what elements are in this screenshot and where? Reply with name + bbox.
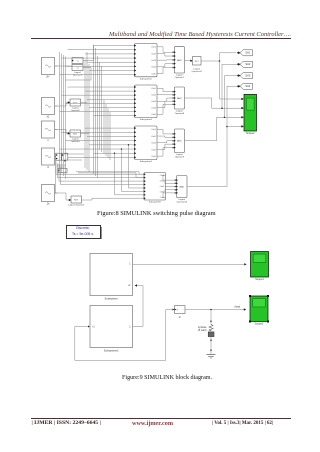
series RLC load 1phase 5watt	[198, 324, 214, 342]
footer rule	[31, 417, 292, 420]
wire Sin3 to NOT3	[55, 130, 71, 135]
subsystem mux S3	[134, 85, 157, 121]
output tag SA1	[237, 50, 252, 56]
wires mux3 to AND9	[157, 129, 174, 156]
footer volume info	[212, 421, 273, 426]
wires mux2 to AND8	[157, 88, 174, 114]
wire AND8 to scope port2	[185, 98, 242, 108]
logical operator NOT13	[190, 57, 202, 73]
wire feedback loop to i2	[166, 309, 175, 361]
wire op1 out up	[83, 45, 94, 61]
scope block Scope3	[249, 295, 269, 325]
mid bus vertical wires	[85, 45, 110, 178]
svg-text:2h: 2h	[47, 203, 50, 205]
caption figure 8	[97, 210, 216, 217]
logical operator NOT2	[70, 99, 81, 112]
source block Sin2	[42, 98, 58, 119]
footer website	[132, 420, 173, 427]
subsystem block Subsystem1	[90, 306, 133, 353]
svg-text:SA2: SA2	[245, 62, 250, 66]
fan-in wires to mux block 3 with branches to block 4	[60, 128, 144, 195]
fan-in wires to mux block 2	[60, 87, 135, 115]
svg-text:Operator9: Operator9	[175, 156, 185, 159]
wire SA3 collector	[224, 76, 238, 119]
subsystem mux S5	[144, 173, 166, 204]
source block Sin4	[42, 148, 58, 169]
svg-text:AND: AND	[177, 59, 182, 62]
svg-text:h2: h2	[47, 116, 50, 118]
ground symbol	[207, 352, 216, 359]
running head title	[109, 31, 291, 38]
svg-text:SA4: SA4	[245, 84, 250, 88]
wire NOT2 out	[81, 102, 88, 104]
powergui block shadow	[68, 227, 102, 239]
wire Sin2 to NOT2	[55, 101, 71, 106]
svg-text:AND: AND	[177, 140, 182, 143]
logical operator AND8	[172, 87, 185, 115]
output tag SA4	[237, 83, 252, 89]
fan-in wires to mux block 1	[60, 46, 135, 75]
powergui block Discrete	[66, 225, 101, 238]
wire SA4 branch to scope port4	[226, 126, 242, 128]
left bus vertical wires	[60, 52, 66, 179]
wire op1 lower out	[65, 68, 91, 81]
source block Sin5	[42, 185, 58, 206]
wire AND9 to scope port3	[185, 117, 242, 140]
wire Sin4 to cluster	[55, 156, 57, 158]
output tag SA3	[237, 73, 252, 79]
wire NOT3 out	[81, 133, 90, 135]
wires mux4 to AND10	[163, 175, 176, 197]
long wires from cluster to mux block 4	[56, 162, 144, 185]
svg-text:SA3: SA3	[245, 74, 250, 78]
scope block Scope2	[241, 94, 257, 134]
wire cluster out	[64, 153, 84, 155]
wire SA2 collector	[221, 64, 237, 109]
wire Sin1 to relational op	[55, 65, 73, 67]
relational operator block	[72, 58, 83, 77]
scope block Scope1	[251, 252, 269, 281]
wire Subsystem1 out to Subsystem in	[133, 284, 144, 326]
svg-text:Logical Operator6: Logical Operator6	[68, 203, 85, 206]
wire NOT13 to SA1	[201, 53, 236, 61]
logical operator AND10	[175, 176, 188, 204]
output tag SA2	[237, 61, 252, 67]
wire NOT13 branch to scope port1	[219, 60, 242, 99]
svg-text:AND: AND	[177, 97, 182, 100]
caption figure 9	[122, 375, 212, 381]
wire Sin5 to NOT6	[55, 193, 72, 201]
wire AND10 to collector	[187, 86, 238, 186]
wire cluster out2	[64, 159, 82, 161]
svg-text:i2: i2	[179, 316, 182, 319]
bottom feedback wires	[56, 160, 144, 194]
wire NOT6 out	[82, 198, 144, 200]
subsystem mux S2	[134, 44, 157, 81]
svg-text:i load: i load	[234, 304, 241, 308]
subsystem block Subsystem	[90, 254, 133, 301]
header rule	[31, 37, 292, 40]
svg-text:Subsystem2: Subsystem2	[140, 77, 153, 80]
logical operator AND7	[172, 47, 185, 79]
svg-text:Scope3: Scope3	[255, 322, 264, 325]
svg-text:Subsystem5: Subsystem5	[149, 201, 162, 204]
svg-text:2h*: 2h*	[46, 76, 50, 78]
comparator cluster	[56, 153, 68, 173]
svg-text:SA1: SA1	[245, 51, 250, 55]
footer journal name	[32, 420, 101, 426]
wire Subsystem out1 to Scope1	[133, 263, 247, 265]
svg-text:Subsystem3: Subsystem3	[140, 118, 153, 121]
source block Sin1	[42, 58, 58, 79]
svg-text:Subsystem1: Subsystem1	[104, 348, 119, 352]
svg-text:it: it	[47, 139, 49, 142]
svg-text:Operator3: Operator3	[71, 140, 81, 143]
svg-text:i1: i1	[47, 167, 50, 169]
svg-text:AND: AND	[179, 185, 184, 188]
logical operator NOT3	[70, 130, 81, 143]
svg-text:Scope2: Scope2	[246, 132, 255, 135]
wire branch to load	[210, 309, 212, 331]
wire AND7 to NOT13	[185, 59, 193, 61]
svg-text:Operator10: Operator10	[176, 201, 187, 204]
label i load	[234, 304, 241, 308]
wires mux1 to AND7	[157, 47, 174, 74]
svg-text:Subsystem4: Subsystem4	[140, 160, 153, 163]
svg-text:Operator8: Operator8	[175, 112, 185, 115]
svg-text:Operator13: Operator13	[192, 70, 203, 73]
svg-text:Scope1: Scope1	[255, 278, 264, 281]
logical operator NOT6	[68, 196, 85, 206]
current measurement block i2	[175, 306, 186, 320]
svg-text:(5 watt): (5 watt)	[198, 328, 207, 332]
svg-text:Operator7: Operator7	[175, 76, 185, 79]
wire bottom feedback loop	[75, 326, 166, 361]
svg-text:-: -	[183, 309, 184, 312]
svg-text:Subsystem: Subsystem	[105, 296, 119, 300]
wire load to ground	[210, 342, 212, 352]
wire i2 to Scope3	[185, 308, 246, 310]
subsystem mux S4	[134, 126, 157, 163]
source block Sin3	[42, 121, 58, 142]
logical operator AND9	[172, 129, 185, 159]
